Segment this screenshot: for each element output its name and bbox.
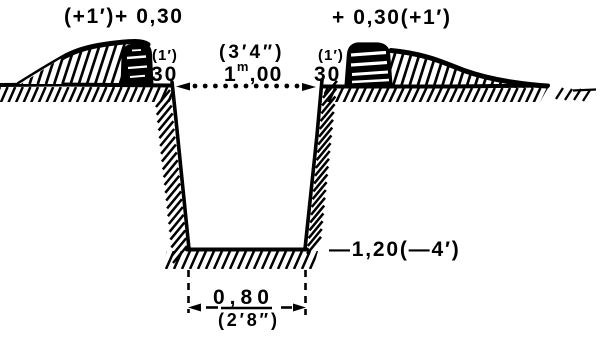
svg-text:30: 30 xyxy=(151,63,178,86)
label 30 left parapet xyxy=(151,63,178,86)
sod block parapet (left) xyxy=(122,45,152,86)
label + 0,30 (+1') (top right) xyxy=(332,6,452,29)
svg-text:(2′8″): (2′8″) xyxy=(218,310,280,330)
spoil mound (right) hatching xyxy=(376,50,560,88)
extension line below right bottom corner (dashed) xyxy=(304,270,307,315)
dimension line 1,00 m (dotted, with arrows) xyxy=(176,83,316,92)
trench right wall hatching xyxy=(307,81,337,254)
ground hatching (left of trench) xyxy=(0,87,182,103)
label 0,80 bottom width xyxy=(213,286,274,309)
svg-text:1m,00: 1m,00 xyxy=(224,59,282,86)
label (1') left parapet xyxy=(152,47,178,64)
extension line below left bottom corner (dashed) xyxy=(187,270,190,313)
trench right wall xyxy=(305,80,322,249)
spoil mound (left) hatching xyxy=(5,44,166,84)
svg-text:(+1′)+ 0,30: (+1′)+ 0,30 xyxy=(64,5,184,28)
svg-text:0,80: 0,80 xyxy=(213,286,274,309)
svg-text:+ 0,30(+1′): + 0,30(+1′) xyxy=(332,6,452,29)
svg-text:—1,20(—4′): —1,20(—4′) xyxy=(329,238,461,261)
label 30 right parapet xyxy=(314,63,341,86)
dimension line 0,80 m with arrows xyxy=(188,304,306,312)
label (3'4") over trench xyxy=(219,42,284,63)
svg-text:(3′4″): (3′4″) xyxy=(219,42,284,63)
trench bottom line xyxy=(187,248,307,252)
label 1m,00 over trench xyxy=(224,59,282,86)
label -1,20 (-4') depth xyxy=(329,238,461,261)
hatching below trench bottom xyxy=(150,251,326,269)
ground hatching (right of trench) xyxy=(313,88,556,103)
sod block parapet (right) xyxy=(346,44,391,86)
ground surface line (left of trench) xyxy=(0,85,172,86)
spoil mound (right) outline xyxy=(391,51,547,87)
trench left wall hatching xyxy=(156,90,187,263)
svg-text:(1′): (1′) xyxy=(318,47,344,64)
label (+1') + 0,30 (top left) xyxy=(64,5,184,28)
label (1') right parapet xyxy=(318,47,344,64)
svg-text:30: 30 xyxy=(314,63,341,86)
spoil mound (left) outline xyxy=(19,42,148,85)
label (2'8") bottom width xyxy=(218,310,280,330)
svg-text:(1′): (1′) xyxy=(152,47,178,64)
ground hatch marks far right xyxy=(556,88,596,101)
trench left wall xyxy=(172,82,189,249)
ground surface line (right of trench) xyxy=(324,86,548,87)
